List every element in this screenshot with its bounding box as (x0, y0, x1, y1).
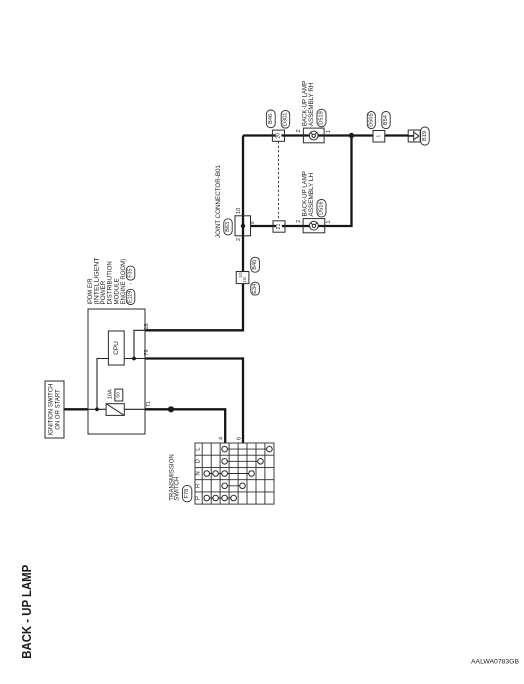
svg-text:E119: E119 (128, 291, 134, 303)
svg-text:,: , (126, 283, 133, 285)
svg-text:2: 2 (296, 129, 302, 132)
svg-text:20: 20 (276, 133, 282, 139)
svg-text:N: N (196, 471, 202, 475)
svg-text:R: R (196, 483, 202, 488)
svg-text:ASSEMBLY RH: ASSEMBLY RH (308, 83, 315, 127)
svg-text:1G: 1G (238, 272, 243, 278)
svg-text:1G: 1G (242, 277, 247, 283)
svg-text:21: 21 (276, 224, 282, 230)
svg-text:1: 1 (375, 135, 381, 138)
svg-text:CPU: CPU (113, 341, 120, 355)
svg-text:50: 50 (115, 392, 121, 398)
svg-text:D505: D505 (368, 113, 374, 126)
svg-text:IGNITION SWITCH: IGNITION SWITCH (48, 384, 54, 436)
svg-text:E34: E34 (252, 284, 258, 294)
svg-text:ON OR START: ON OR START (55, 389, 61, 430)
svg-text:10A: 10A (107, 389, 113, 399)
svg-text:6: 6 (236, 437, 242, 440)
svg-text:B54: B54 (383, 115, 389, 125)
svg-text:4: 4 (218, 437, 224, 440)
svg-text:P: P (196, 496, 202, 500)
svg-text:B63: B63 (225, 222, 231, 232)
svg-text:2: 2 (236, 238, 242, 241)
svg-text:L: L (196, 447, 202, 451)
svg-text:2: 2 (296, 220, 302, 223)
svg-text:79: 79 (144, 349, 150, 355)
svg-text:BACK - UP LAMP: BACK - UP LAMP (19, 564, 34, 658)
svg-text:1: 1 (326, 220, 332, 223)
svg-text:D516: D516 (319, 202, 325, 215)
svg-text:ASSEMBLY LH: ASSEMBLY LH (308, 173, 315, 217)
svg-text:AALWA0783GB: AALWA0783GB (471, 659, 519, 666)
svg-text:10: 10 (236, 208, 242, 214)
svg-text:B46: B46 (268, 114, 274, 124)
svg-text:D: D (196, 458, 202, 463)
svg-text:16: 16 (144, 323, 150, 329)
svg-text:B19: B19 (422, 131, 428, 141)
svg-text:F78: F78 (184, 489, 190, 499)
svg-text:JOINT CONNECTOR-B01: JOINT CONNECTOR-B01 (215, 164, 222, 238)
svg-text:9: 9 (250, 221, 256, 224)
svg-text:D519: D519 (319, 111, 325, 124)
svg-text:SWITCH: SWITCH (174, 477, 181, 501)
svg-text:ENGINE ROOM): ENGINE ROOM) (120, 259, 127, 305)
svg-text:F35: F35 (128, 268, 134, 277)
svg-text:1: 1 (326, 130, 332, 133)
svg-text:D301: D301 (283, 113, 289, 126)
svg-text:B40: B40 (252, 260, 258, 270)
svg-text:71: 71 (146, 401, 152, 407)
